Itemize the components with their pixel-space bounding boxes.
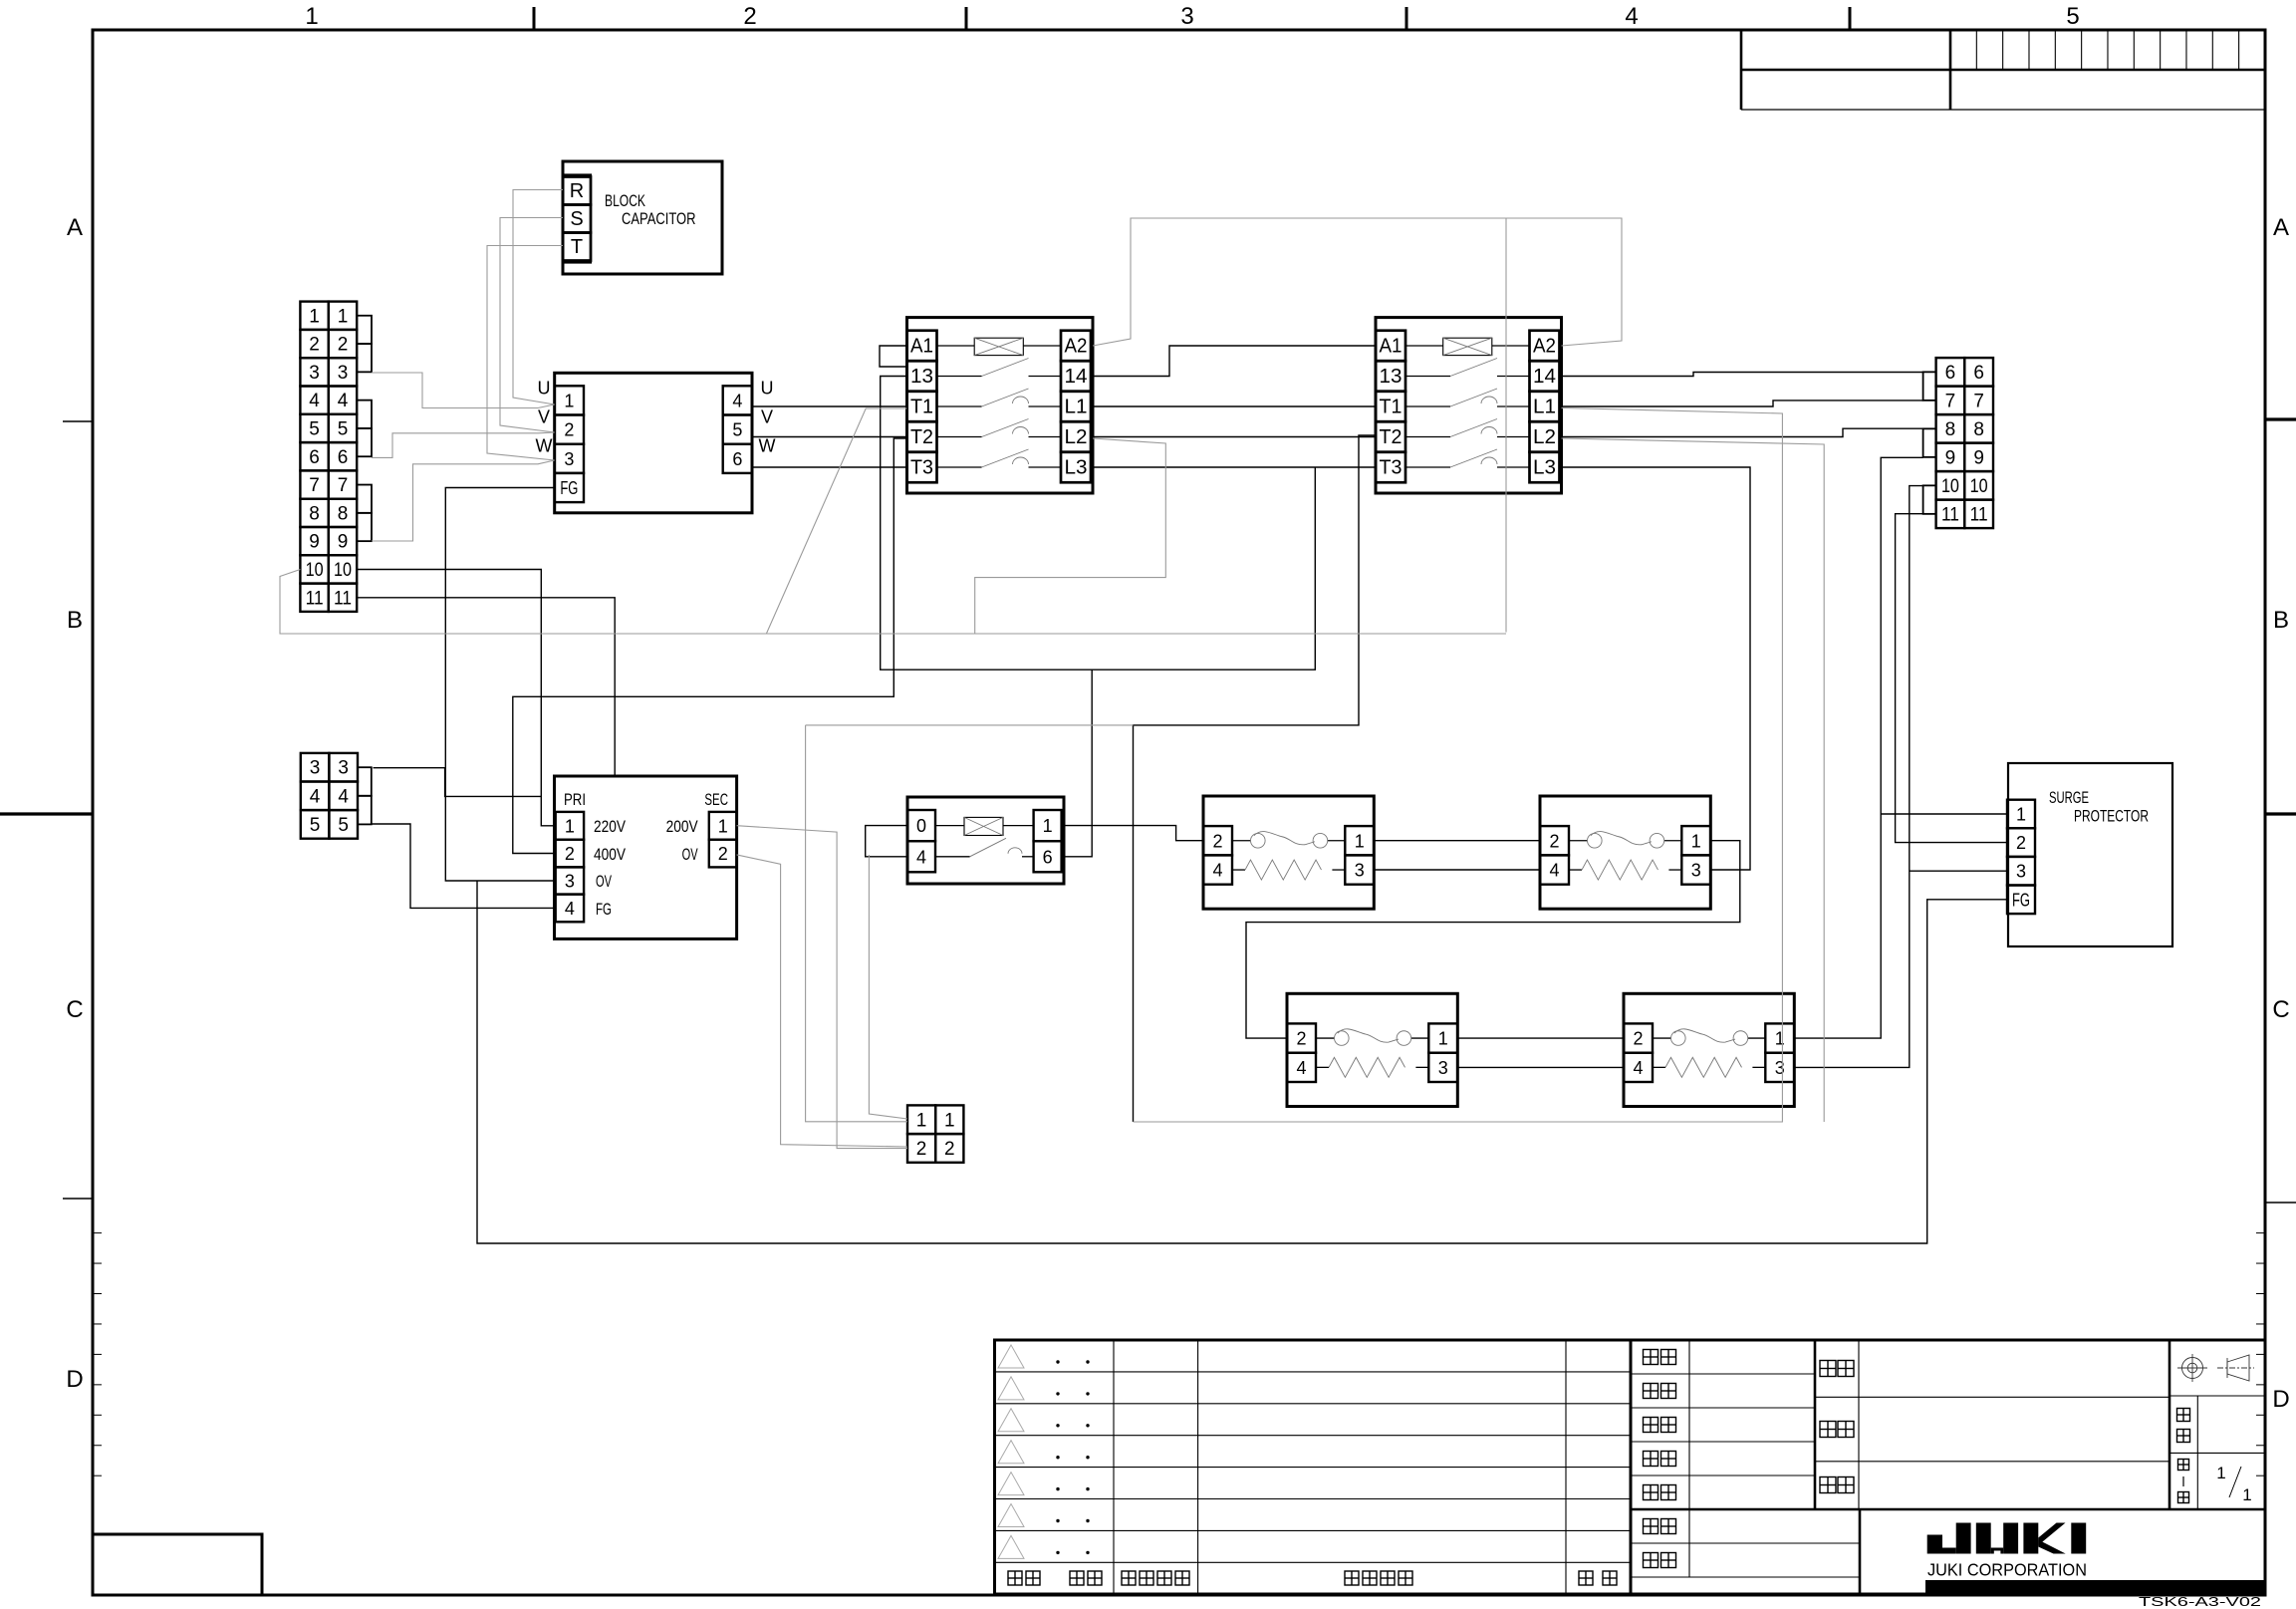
svg-text:PRI: PRI bbox=[564, 790, 586, 809]
svg-text:11: 11 bbox=[1941, 504, 1959, 525]
svg-text:2: 2 bbox=[1296, 1029, 1306, 1049]
svg-text:1: 1 bbox=[564, 391, 574, 410]
svg-text:3: 3 bbox=[310, 758, 321, 779]
svg-text:8: 8 bbox=[309, 503, 320, 524]
svg-text:3: 3 bbox=[1438, 1058, 1448, 1078]
svg-text:7: 7 bbox=[1973, 391, 1984, 411]
svg-text:T: T bbox=[571, 236, 583, 258]
svg-text:4: 4 bbox=[565, 899, 575, 919]
svg-text:3: 3 bbox=[1691, 861, 1701, 881]
svg-text:11: 11 bbox=[306, 588, 324, 609]
svg-text:BLOCK: BLOCK bbox=[605, 191, 645, 210]
svg-text:10: 10 bbox=[306, 560, 324, 581]
svg-text:6: 6 bbox=[1973, 363, 1984, 384]
svg-text:SEC: SEC bbox=[704, 790, 728, 809]
svg-text:9: 9 bbox=[1973, 447, 1984, 468]
svg-text:5: 5 bbox=[338, 418, 349, 439]
svg-text:3: 3 bbox=[565, 872, 575, 892]
svg-text:2: 2 bbox=[1212, 831, 1222, 851]
svg-text:5: 5 bbox=[309, 418, 320, 439]
svg-text:1: 1 bbox=[2242, 1485, 2251, 1504]
svg-text:4: 4 bbox=[1296, 1058, 1306, 1078]
svg-text:8: 8 bbox=[338, 503, 349, 524]
svg-text:5: 5 bbox=[338, 815, 349, 836]
svg-text:L3: L3 bbox=[1533, 457, 1556, 479]
svg-text:13: 13 bbox=[910, 366, 933, 388]
svg-text:T3: T3 bbox=[910, 457, 933, 479]
svg-text:13: 13 bbox=[1380, 366, 1403, 388]
svg-text:2: 2 bbox=[564, 420, 574, 440]
svg-text:2: 2 bbox=[1633, 1029, 1643, 1049]
svg-text:8: 8 bbox=[1973, 419, 1984, 440]
svg-text:A2: A2 bbox=[1533, 336, 1556, 358]
svg-text:T1: T1 bbox=[910, 397, 933, 418]
svg-text:3: 3 bbox=[1775, 1058, 1785, 1078]
svg-text:3: 3 bbox=[1180, 3, 1193, 30]
svg-text:5: 5 bbox=[310, 815, 321, 836]
svg-text:4: 4 bbox=[732, 391, 742, 410]
svg-text:5: 5 bbox=[2066, 3, 2079, 30]
svg-text:A1: A1 bbox=[910, 336, 933, 358]
svg-text:W: W bbox=[759, 436, 776, 456]
svg-text:D: D bbox=[2272, 1386, 2289, 1413]
svg-text:9: 9 bbox=[309, 532, 320, 553]
svg-text:L3: L3 bbox=[1065, 457, 1088, 479]
svg-text:SURGE: SURGE bbox=[2049, 788, 2089, 807]
svg-text:1: 1 bbox=[1043, 816, 1053, 836]
svg-text:OV: OV bbox=[682, 845, 698, 864]
svg-text:400V: 400V bbox=[594, 845, 627, 864]
svg-text:2: 2 bbox=[2016, 833, 2026, 853]
svg-text:14: 14 bbox=[1065, 366, 1088, 388]
svg-text:1: 1 bbox=[1438, 1029, 1448, 1049]
svg-text:6: 6 bbox=[732, 449, 742, 469]
svg-text:TSK6-A3-V02: TSK6-A3-V02 bbox=[2139, 1595, 2261, 1609]
svg-text:T3: T3 bbox=[1380, 457, 1403, 479]
svg-text:C: C bbox=[66, 996, 83, 1023]
svg-text:L1: L1 bbox=[1533, 397, 1556, 418]
svg-text:R: R bbox=[570, 180, 584, 202]
svg-text:7: 7 bbox=[1945, 391, 1956, 411]
svg-text:V: V bbox=[538, 407, 550, 427]
svg-text:6: 6 bbox=[309, 447, 320, 468]
svg-text:0: 0 bbox=[916, 816, 926, 836]
svg-text:6: 6 bbox=[1945, 363, 1956, 384]
svg-text:1: 1 bbox=[1691, 831, 1701, 851]
svg-text:2: 2 bbox=[1549, 831, 1559, 851]
svg-text:A: A bbox=[67, 214, 83, 241]
svg-text:PROTECTOR: PROTECTOR bbox=[2074, 807, 2149, 826]
svg-text:6: 6 bbox=[338, 447, 349, 468]
svg-text:W: W bbox=[536, 436, 553, 456]
svg-text:2: 2 bbox=[309, 335, 320, 356]
svg-text:FG: FG bbox=[560, 478, 578, 498]
svg-text:4: 4 bbox=[916, 847, 926, 867]
svg-text:U: U bbox=[538, 378, 551, 398]
svg-text:4: 4 bbox=[338, 391, 349, 411]
svg-text:14: 14 bbox=[1533, 366, 1556, 388]
svg-text:1: 1 bbox=[565, 816, 575, 836]
svg-text:2: 2 bbox=[565, 844, 575, 864]
svg-text:D: D bbox=[66, 1366, 83, 1393]
svg-text:200V: 200V bbox=[666, 817, 699, 836]
svg-text:10: 10 bbox=[334, 560, 352, 581]
svg-text:U: U bbox=[761, 378, 774, 398]
svg-text:A: A bbox=[2273, 214, 2289, 241]
svg-text:C: C bbox=[2272, 996, 2289, 1023]
svg-text:8: 8 bbox=[1945, 419, 1956, 440]
svg-text:3: 3 bbox=[338, 363, 349, 384]
svg-text:A2: A2 bbox=[1065, 336, 1088, 358]
svg-text:1: 1 bbox=[718, 816, 728, 836]
svg-text:220V: 220V bbox=[594, 817, 627, 836]
svg-text:OV: OV bbox=[596, 872, 612, 891]
svg-text:3: 3 bbox=[2016, 862, 2026, 882]
svg-text:2: 2 bbox=[338, 335, 349, 356]
svg-text:9: 9 bbox=[338, 532, 349, 553]
svg-text:1: 1 bbox=[916, 1110, 927, 1131]
svg-text:4: 4 bbox=[1212, 861, 1222, 881]
svg-text:1: 1 bbox=[305, 3, 318, 30]
svg-text:2: 2 bbox=[916, 1139, 927, 1160]
svg-text:L2: L2 bbox=[1533, 426, 1556, 448]
svg-text:3: 3 bbox=[1355, 861, 1365, 881]
svg-text:11: 11 bbox=[334, 588, 352, 609]
svg-text:4: 4 bbox=[1549, 861, 1559, 881]
svg-text:7: 7 bbox=[338, 475, 349, 496]
svg-text:T1: T1 bbox=[1380, 397, 1403, 418]
svg-text:4: 4 bbox=[310, 786, 321, 807]
svg-text:4: 4 bbox=[338, 786, 349, 807]
svg-text:4: 4 bbox=[1633, 1058, 1643, 1078]
svg-text:11: 11 bbox=[1970, 504, 1988, 525]
svg-text:1: 1 bbox=[944, 1110, 955, 1131]
svg-text:B: B bbox=[67, 607, 83, 634]
svg-text:B: B bbox=[2273, 607, 2289, 634]
svg-text:2: 2 bbox=[743, 3, 756, 30]
svg-text:L1: L1 bbox=[1065, 397, 1088, 418]
svg-text:9: 9 bbox=[1945, 447, 1956, 468]
svg-text:1: 1 bbox=[1355, 831, 1365, 851]
svg-text:A1: A1 bbox=[1380, 336, 1403, 358]
svg-text:3: 3 bbox=[338, 758, 349, 779]
svg-text:JUKI CORPORATION: JUKI CORPORATION bbox=[1927, 1560, 2087, 1580]
svg-text:CAPACITOR: CAPACITOR bbox=[622, 209, 696, 228]
svg-text:L2: L2 bbox=[1065, 426, 1088, 448]
svg-text:10: 10 bbox=[1970, 476, 1988, 497]
svg-text:2: 2 bbox=[718, 844, 728, 864]
svg-text:5: 5 bbox=[732, 420, 742, 440]
svg-text:S: S bbox=[570, 208, 583, 230]
svg-text:4: 4 bbox=[1625, 3, 1638, 30]
svg-text:FG: FG bbox=[2012, 890, 2030, 910]
svg-text:1: 1 bbox=[1775, 1029, 1785, 1049]
svg-text:1: 1 bbox=[2216, 1464, 2225, 1482]
svg-text:1: 1 bbox=[2016, 805, 2026, 825]
svg-text:V: V bbox=[761, 407, 773, 427]
svg-text:4: 4 bbox=[309, 391, 320, 411]
svg-text:1: 1 bbox=[338, 306, 349, 327]
svg-text:2: 2 bbox=[944, 1139, 955, 1160]
svg-text:T2: T2 bbox=[1380, 426, 1403, 448]
svg-text:7: 7 bbox=[309, 475, 320, 496]
svg-text:3: 3 bbox=[564, 449, 574, 469]
svg-text:T2: T2 bbox=[910, 426, 933, 448]
svg-text:3: 3 bbox=[309, 363, 320, 384]
svg-text:6: 6 bbox=[1043, 847, 1053, 867]
svg-text:FG: FG bbox=[596, 900, 612, 919]
svg-text:1: 1 bbox=[309, 306, 320, 327]
svg-text:10: 10 bbox=[1941, 476, 1959, 497]
